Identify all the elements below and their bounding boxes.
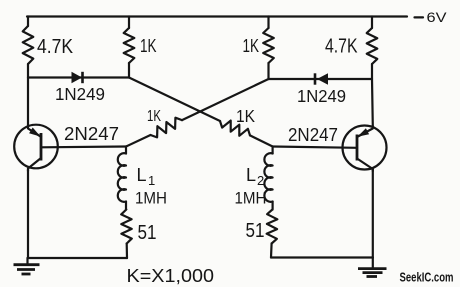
resistor R7 51 (left): [121, 210, 156, 259]
svg-text:4.7K: 4.7K: [37, 36, 74, 58]
svg-text:1MH: 1MH: [235, 189, 267, 208]
svg-text:L: L: [137, 165, 147, 185]
svg-text:2N247: 2N247: [288, 125, 338, 145]
resistor R4 4.7K (right): [325, 17, 377, 80]
ground right: [358, 258, 387, 277]
wire left vertical to Q1: [27, 78, 29, 127]
svg-text:4.7K: 4.7K: [325, 36, 358, 58]
wire right vertical to ground: [372, 170, 374, 258]
power label -6V: [415, 9, 448, 25]
svg-text:1: 1: [148, 173, 155, 188]
svg-text:1MH: 1MH: [135, 189, 167, 208]
svg-text:1N249: 1N249: [297, 86, 346, 106]
svg-text:SeekIC.com: SeekIC.com: [400, 271, 454, 285]
svg-text:1K: 1K: [243, 36, 260, 56]
resistor R5 1K cross-coupling (left collector to right base): [129, 78, 273, 147]
wire bottom right: [271, 256, 373, 258]
svg-text:51: 51: [246, 220, 265, 242]
svg-text:L: L: [246, 165, 256, 185]
svg-text:1N249: 1N249: [55, 84, 105, 104]
svg-text:2: 2: [257, 173, 264, 188]
svg-text:1K: 1K: [140, 36, 157, 56]
wire right collector node line: [269, 78, 373, 80]
transistor Q1 2N247 (left PNP): [14, 124, 119, 171]
transistor Q2 2N247 (right PNP): [288, 125, 387, 171]
diode D1 1N249 (left, pointing right): [55, 72, 105, 104]
inductor L1 1MH: [118, 147, 167, 210]
svg-text:51: 51: [138, 222, 157, 244]
svg-text:2N247: 2N247: [64, 124, 119, 144]
resistor R8 51 (right): [246, 210, 278, 258]
resistor R1 4.7K (left): [23, 17, 74, 78]
svg-text:6V: 6V: [427, 9, 448, 25]
wire left vertical to ground: [27, 170, 29, 259]
wire left collector node line: [28, 76, 129, 78]
resistor R3 1K (right): [243, 17, 274, 80]
resistor R6 1K cross-coupling (right collector to left base): [126, 79, 269, 147]
wire top supply rail: [27, 15, 407, 17]
wire bottom left: [28, 257, 128, 259]
svg-text:1K: 1K: [147, 108, 161, 125]
ground left: [14, 258, 40, 274]
wire Q2 base line: [273, 147, 357, 148]
resistor R2 1K (left): [124, 17, 157, 78]
wire Q1 base line: [41, 145, 126, 148]
svg-text:1K: 1K: [236, 106, 255, 126]
diode D2 1N249 (right, pointing left): [297, 73, 346, 106]
inductor L2 1MH: [235, 147, 273, 210]
svg-text:K=X1,000: K=X1,000: [127, 265, 215, 286]
wire right vertical to Q2: [371, 79, 374, 127]
